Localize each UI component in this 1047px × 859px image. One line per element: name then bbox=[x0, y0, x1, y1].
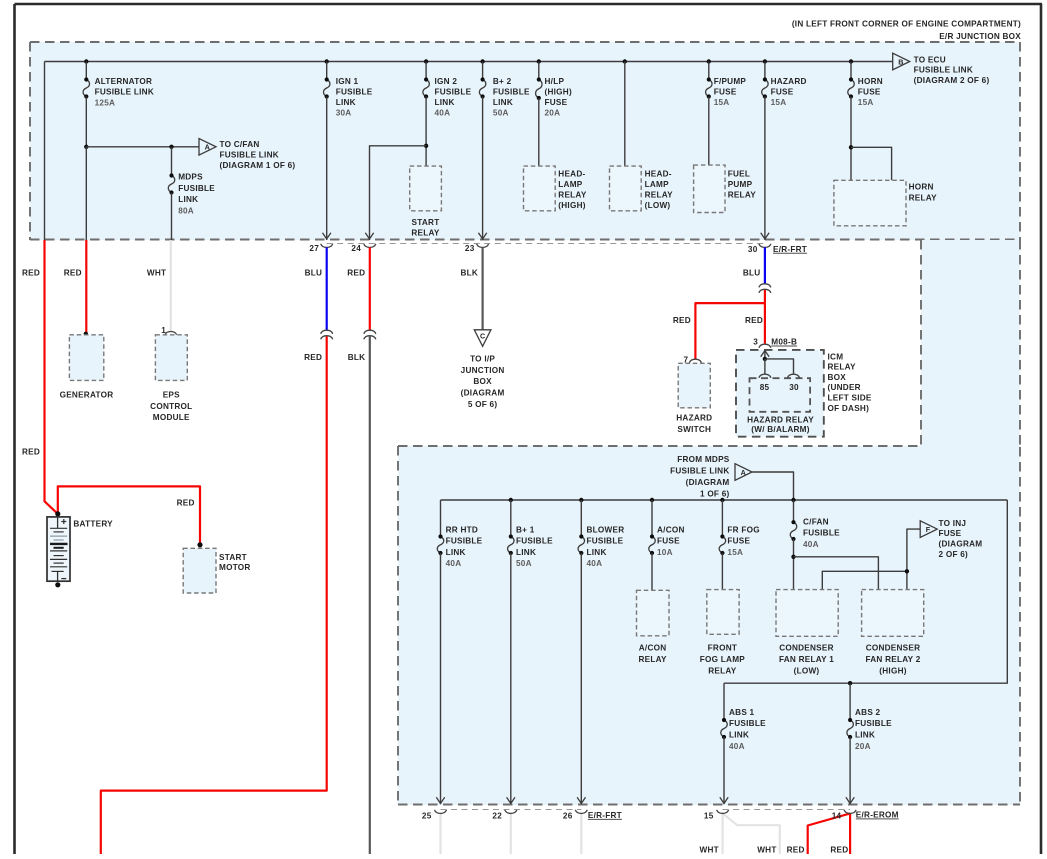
fusible link ABS 1 40A bbox=[720, 683, 766, 804]
wire WHT pin26 bbox=[580, 813, 582, 854]
connector A to C/FAN fusible link bbox=[199, 139, 295, 170]
svg-text:40A: 40A bbox=[446, 559, 462, 568]
wire from triangle A bbox=[752, 472, 794, 500]
svg-text:HEAD-: HEAD- bbox=[645, 169, 672, 178]
svg-text:FUSE: FUSE bbox=[657, 537, 680, 546]
relay box CONDENSER FAN RELAY 2 (HIGH) bbox=[862, 590, 924, 676]
wire RED generator bbox=[64, 240, 87, 334]
svg-text:FUSIBLE: FUSIBLE bbox=[587, 537, 624, 546]
svg-text:22: 22 bbox=[492, 812, 502, 821]
svg-text:RELAY: RELAY bbox=[728, 191, 757, 200]
svg-text:FUSE: FUSE bbox=[545, 98, 568, 107]
svg-text:15A: 15A bbox=[714, 98, 730, 107]
svg-text:F/PUMP: F/PUMP bbox=[714, 77, 747, 86]
svg-text:(HIGH): (HIGH) bbox=[558, 201, 585, 210]
wire BLU pin30 bbox=[743, 247, 765, 284]
svg-text:5 OF 6): 5 OF 6) bbox=[468, 400, 498, 409]
wire BLU pin27 bbox=[305, 247, 327, 330]
svg-text:RELAY: RELAY bbox=[828, 363, 857, 372]
connector A from MDPS fusible link bbox=[670, 455, 752, 499]
svg-text:BLK: BLK bbox=[461, 269, 479, 278]
svg-text:B+ 2: B+ 2 bbox=[493, 77, 512, 86]
svg-text:LAMP: LAMP bbox=[558, 180, 582, 189]
svg-text:RED: RED bbox=[787, 845, 805, 854]
svg-text:WHT: WHT bbox=[757, 845, 776, 854]
wire RED battery top bbox=[58, 486, 200, 544]
node F/PUMP tap bbox=[707, 59, 711, 63]
svg-text:FROM MDPS: FROM MDPS bbox=[677, 455, 730, 464]
svg-text:20A: 20A bbox=[545, 109, 561, 118]
svg-text:LEFT SIDE: LEFT SIDE bbox=[828, 394, 872, 403]
svg-text:OF DASH): OF DASH) bbox=[828, 404, 870, 413]
svg-text:RED: RED bbox=[347, 269, 365, 278]
node H/LP tap bbox=[537, 59, 541, 63]
svg-text:FUSIBLE LINK: FUSIBLE LINK bbox=[220, 150, 279, 159]
node ICM split bbox=[763, 357, 767, 361]
fusible link IGN 2 40A bbox=[423, 62, 472, 167]
svg-text:MOTOR: MOTOR bbox=[219, 563, 251, 572]
inline connector 30 bbox=[759, 284, 771, 293]
svg-text:BOX: BOX bbox=[828, 373, 847, 382]
svg-text:FUEL: FUEL bbox=[728, 169, 750, 178]
svg-text:RED: RED bbox=[830, 845, 848, 854]
wire WHT pin25 bbox=[439, 813, 441, 854]
svg-text:(HIGH): (HIGH) bbox=[545, 87, 572, 96]
svg-text:15A: 15A bbox=[858, 98, 874, 107]
svg-text:LINK: LINK bbox=[729, 731, 749, 740]
svg-text:(W/ B/ALARM): (W/ B/ALARM) bbox=[751, 425, 810, 434]
svg-text:MDPS: MDPS bbox=[178, 173, 203, 182]
fusible link IGN 1 30A bbox=[323, 62, 373, 241]
svg-text:26: 26 bbox=[563, 812, 573, 821]
svg-text:FUSIBLE LINK: FUSIBLE LINK bbox=[914, 66, 973, 75]
node HORN tap bbox=[849, 59, 853, 63]
fusible link B+ 1 50A bbox=[507, 500, 553, 804]
svg-text:(DIAGRAM 1 OF 6): (DIAGRAM 1 OF 6) bbox=[220, 161, 296, 170]
svg-text:GENERATOR: GENERATOR bbox=[60, 391, 114, 400]
pin 30 bbox=[748, 244, 807, 254]
connector face E/R-FRT dashed link bbox=[327, 243, 765, 245]
relay box HORN RELAY bbox=[834, 180, 937, 226]
svg-text:FUSIBLE: FUSIBLE bbox=[435, 87, 472, 96]
svg-text:HORN: HORN bbox=[909, 183, 934, 192]
wire to relay pins bbox=[765, 359, 794, 374]
svg-text:M08-B: M08-B bbox=[771, 338, 797, 347]
svg-text:B+ 1: B+ 1 bbox=[516, 526, 535, 535]
relay box START RELAY bbox=[410, 166, 442, 237]
svg-text:(DIAGRAM 2 OF 6): (DIAGRAM 2 OF 6) bbox=[914, 76, 990, 85]
svg-text:RED: RED bbox=[22, 447, 40, 456]
svg-text:START: START bbox=[412, 218, 440, 227]
svg-text:FUSE: FUSE bbox=[939, 529, 962, 538]
svg-text:A/CON: A/CON bbox=[639, 643, 667, 652]
wire RED hazard feed bbox=[673, 290, 765, 359]
pin 22 bbox=[492, 810, 516, 821]
svg-text:SWITCH: SWITCH bbox=[677, 425, 711, 434]
svg-text:FOG LAMP: FOG LAMP bbox=[700, 655, 745, 664]
svg-text:(IN LEFT FRONT CORNER OF ENGIN: (IN LEFT FRONT CORNER OF ENGINE COMPARTM… bbox=[792, 19, 1021, 28]
svg-text:RED: RED bbox=[64, 269, 82, 278]
node A/CON tap bbox=[650, 498, 654, 502]
node inj branch bbox=[905, 569, 909, 573]
svg-text:ABS 1: ABS 1 bbox=[729, 708, 755, 717]
svg-text:(LOW): (LOW) bbox=[645, 201, 671, 210]
component box GENERATOR bbox=[60, 335, 114, 400]
svg-text:1 OF 6): 1 OF 6) bbox=[700, 489, 730, 498]
svg-text:RED: RED bbox=[177, 498, 195, 507]
svg-text:HAZARD: HAZARD bbox=[676, 414, 712, 423]
wire WHT pin22 bbox=[510, 813, 512, 854]
svg-text:RELAY: RELAY bbox=[909, 193, 938, 202]
svg-text:HAZARD RELAY: HAZARD RELAY bbox=[747, 415, 814, 424]
svg-text:E/R-FRT: E/R-FRT bbox=[588, 811, 622, 820]
svg-text:15A: 15A bbox=[771, 98, 787, 107]
svg-text:24: 24 bbox=[351, 244, 361, 253]
svg-text:40A: 40A bbox=[435, 109, 451, 118]
node battery positive bbox=[55, 511, 60, 516]
connector F to INJ fuse bbox=[920, 519, 982, 559]
fusible link BLOWER 40A bbox=[577, 500, 624, 804]
svg-text:(UNDER: (UNDER bbox=[828, 383, 861, 392]
svg-text:(LOW): (LOW) bbox=[794, 666, 820, 675]
svg-text:IGN 1: IGN 1 bbox=[336, 77, 359, 86]
svg-text:LINK: LINK bbox=[178, 195, 198, 204]
svg-text:BLK: BLK bbox=[348, 353, 366, 362]
svg-text:FUSIBLE: FUSIBLE bbox=[803, 529, 840, 538]
component box EPS CONTROL MODULE bbox=[150, 335, 192, 422]
pin 27 bbox=[309, 244, 332, 253]
fusible link ALTERNATOR 125A bbox=[83, 62, 154, 147]
svg-text:E/R JUNCTION BOX: E/R JUNCTION BOX bbox=[939, 32, 1021, 41]
pin 3 M08-B bbox=[753, 338, 797, 348]
svg-text:TO ECU: TO ECU bbox=[914, 55, 946, 64]
svg-text:MODULE: MODULE bbox=[153, 413, 190, 422]
svg-text:FUSIBLE: FUSIBLE bbox=[729, 719, 766, 728]
svg-text:RED: RED bbox=[22, 269, 40, 278]
node start-relay branch bbox=[424, 144, 428, 148]
svg-text:TO I/P: TO I/P bbox=[470, 355, 495, 364]
node IGN2 tap bbox=[424, 59, 428, 63]
svg-text:RED: RED bbox=[745, 316, 763, 325]
svg-text:(HIGH): (HIGH) bbox=[879, 666, 906, 675]
pin 7 hazard switch bbox=[683, 356, 701, 365]
svg-text:BATTERY: BATTERY bbox=[73, 519, 113, 528]
svg-text:FUSIBLE: FUSIBLE bbox=[336, 87, 373, 96]
svg-text:FUSIBLE: FUSIBLE bbox=[855, 719, 892, 728]
inline connector 27 bbox=[321, 330, 333, 339]
connector B to ECU fusible link bbox=[893, 53, 990, 85]
svg-text:START: START bbox=[219, 553, 247, 562]
svg-text:H/LP: H/LP bbox=[545, 77, 565, 86]
relay box HEAD-LAMP RELAY (HIGH) bbox=[524, 166, 587, 211]
E/R junction box right strip bbox=[921, 240, 1020, 447]
svg-text:FR FOG: FR FOG bbox=[727, 526, 759, 535]
pin 24 bbox=[351, 244, 375, 253]
svg-text:30A: 30A bbox=[336, 109, 352, 118]
pin 14 bbox=[832, 810, 899, 821]
node condenser split bbox=[791, 555, 795, 559]
pin 26 bbox=[563, 810, 622, 821]
svg-text:(DIAGRAM: (DIAGRAM bbox=[686, 478, 730, 487]
svg-text:ICM: ICM bbox=[828, 352, 844, 361]
connector C to I/P junction box bbox=[461, 330, 505, 409]
svg-text:CONTROL: CONTROL bbox=[150, 402, 192, 411]
svg-text:PUMP: PUMP bbox=[728, 180, 753, 189]
svg-text:LINK: LINK bbox=[336, 98, 356, 107]
node headlamp-low tap bbox=[623, 59, 627, 63]
svg-text:FUSIBLE: FUSIBLE bbox=[516, 537, 553, 546]
wire headlamp low drop bbox=[624, 62, 626, 167]
connector face E/R-EROM dashed link bbox=[723, 809, 851, 811]
svg-text:30: 30 bbox=[789, 383, 799, 392]
wire RED long run bbox=[101, 336, 327, 854]
relay box CONDENSER FAN RELAY 1 (LOW) bbox=[776, 590, 838, 676]
svg-text:10A: 10A bbox=[657, 548, 673, 557]
svg-text:50A: 50A bbox=[516, 559, 532, 568]
pin 30 relay bbox=[788, 374, 800, 392]
connector face E/R-FRT bottom dashed link bbox=[441, 809, 582, 811]
node IGN1 tap bbox=[325, 59, 329, 63]
wire lower bus bbox=[441, 500, 1008, 537]
pin 23 bbox=[465, 244, 489, 253]
svg-text:LINK: LINK bbox=[855, 731, 875, 740]
fuse HORN 15A bbox=[848, 62, 883, 181]
inline connector 24 bbox=[364, 330, 376, 339]
component box START MOTOR bbox=[183, 548, 250, 593]
svg-text:B: B bbox=[898, 57, 903, 66]
svg-text:RELAY: RELAY bbox=[708, 666, 737, 675]
wire horn relay branch bbox=[851, 147, 892, 180]
wire RED battery feed bbox=[22, 240, 58, 514]
node A1 bbox=[84, 145, 88, 149]
svg-text:RELAY: RELAY bbox=[645, 191, 674, 200]
fusible link C/FAN 40A bbox=[790, 500, 840, 590]
component box HAZARD SWITCH bbox=[676, 363, 712, 434]
svg-text:14: 14 bbox=[832, 812, 842, 821]
svg-text:C/FAN: C/FAN bbox=[803, 517, 829, 526]
svg-text:15A: 15A bbox=[727, 548, 743, 557]
fusible link MDPS 80A bbox=[168, 147, 215, 240]
node alternator tap bbox=[84, 59, 88, 63]
svg-text:CONDENSER: CONDENSER bbox=[779, 643, 834, 652]
svg-text:HORN: HORN bbox=[858, 77, 883, 86]
svg-text:FAN RELAY 2: FAN RELAY 2 bbox=[865, 655, 920, 664]
svg-text:FUSIBLE: FUSIBLE bbox=[493, 87, 530, 96]
svg-text:FUSIBLE LINK: FUSIBLE LINK bbox=[95, 88, 154, 97]
svg-text:TO C/FAN: TO C/FAN bbox=[220, 140, 260, 149]
svg-text:JUNCTION: JUNCTION bbox=[461, 366, 505, 375]
node generator bbox=[84, 332, 88, 336]
svg-text:40A: 40A bbox=[729, 742, 745, 751]
fuse H/LP HIGH 20A bbox=[536, 62, 572, 167]
wire alternator drop lower bbox=[85, 147, 87, 240]
node ABS2 tap bbox=[848, 681, 852, 685]
svg-text:3: 3 bbox=[753, 338, 758, 347]
svg-text:RELAY: RELAY bbox=[558, 191, 587, 200]
wire RED pin24 bbox=[347, 247, 370, 330]
svg-text:BLU: BLU bbox=[305, 269, 323, 278]
svg-text:FUSE: FUSE bbox=[771, 87, 794, 96]
svg-text:80A: 80A bbox=[178, 207, 194, 216]
relay box FUEL PUMP RELAY bbox=[694, 165, 757, 212]
svg-text:FRONT: FRONT bbox=[708, 643, 737, 652]
svg-text:HAZARD: HAZARD bbox=[771, 77, 807, 86]
svg-text:CONDENSER: CONDENSER bbox=[866, 643, 921, 652]
svg-text:(DIAGRAM: (DIAGRAM bbox=[461, 389, 505, 398]
node B+2 tap bbox=[480, 59, 484, 63]
relay box HEAD-LAMP RELAY (LOW) bbox=[610, 166, 674, 211]
svg-text:2 OF 6): 2 OF 6) bbox=[939, 550, 969, 559]
wire BLK pin23 bbox=[461, 247, 483, 329]
pin 15 bbox=[704, 810, 729, 821]
svg-text:125A: 125A bbox=[95, 98, 116, 107]
wire to C/FAN triangle bbox=[86, 146, 199, 148]
fusible link RR HTD 40A bbox=[436, 526, 482, 805]
svg-text:F: F bbox=[926, 525, 931, 534]
node MDPS tap bbox=[169, 145, 173, 149]
svg-text:RR HTD: RR HTD bbox=[446, 526, 478, 535]
svg-text:15: 15 bbox=[704, 812, 714, 821]
svg-text:ALTERNATOR: ALTERNATOR bbox=[95, 77, 153, 86]
svg-text:20A: 20A bbox=[855, 742, 871, 751]
svg-text:85: 85 bbox=[760, 383, 770, 392]
wire WHT pin15 pair bbox=[700, 813, 780, 854]
fuse F/PUMP 15A bbox=[706, 62, 747, 166]
node start motor bbox=[197, 542, 202, 547]
svg-text:WHT: WHT bbox=[700, 845, 719, 854]
svg-text:LAMP: LAMP bbox=[645, 180, 669, 189]
svg-text:A: A bbox=[741, 468, 746, 477]
component box ICM RELAY BOX bbox=[736, 350, 872, 437]
node B+1 tap bbox=[509, 498, 513, 502]
node horn branch bbox=[849, 145, 853, 149]
fuse HAZARD 15A bbox=[761, 62, 807, 241]
svg-text:FUSE: FUSE bbox=[727, 537, 750, 546]
node FR FOG tap bbox=[720, 498, 724, 502]
svg-text:FUSIBLE: FUSIBLE bbox=[446, 537, 483, 546]
E/R junction box top section bbox=[30, 42, 1020, 240]
fusible link ABS 2 20A bbox=[846, 683, 892, 804]
svg-text:ABS 2: ABS 2 bbox=[855, 708, 881, 717]
svg-text:RED: RED bbox=[304, 353, 322, 362]
svg-text:(DIAGRAM: (DIAGRAM bbox=[939, 540, 983, 549]
wire bus right leg bbox=[724, 500, 1007, 683]
svg-text:E/R-FRT: E/R-FRT bbox=[773, 245, 807, 254]
svg-text:LINK: LINK bbox=[446, 548, 466, 557]
svg-text:FUSE: FUSE bbox=[858, 87, 881, 96]
svg-text:40A: 40A bbox=[803, 540, 819, 549]
svg-text:LINK: LINK bbox=[516, 548, 536, 557]
fuse FR FOG 15A bbox=[719, 500, 760, 590]
wire branch to pin 24 bbox=[365, 146, 426, 240]
node HAZARD tap bbox=[763, 59, 767, 63]
svg-text:IGN 2: IGN 2 bbox=[435, 77, 458, 86]
relay box HAZARD RELAY (W/ B/ALARM) bbox=[747, 378, 814, 434]
wire ICM entry bbox=[761, 351, 769, 359]
svg-text:27: 27 bbox=[309, 244, 319, 253]
pin 25 bbox=[422, 810, 447, 821]
pin 85 bbox=[759, 374, 771, 392]
wire RED pin14 pair bbox=[787, 813, 851, 854]
svg-text:FAN RELAY 1: FAN RELAY 1 bbox=[779, 655, 834, 664]
node BLOWER tap bbox=[579, 498, 583, 502]
svg-text:FUSIBLE LINK: FUSIBLE LINK bbox=[670, 466, 729, 475]
header caption bbox=[792, 19, 1021, 40]
svg-text:EPS: EPS bbox=[163, 391, 180, 400]
svg-text:BOX: BOX bbox=[473, 377, 492, 386]
svg-text:WHT: WHT bbox=[147, 269, 166, 278]
svg-text:LINK: LINK bbox=[587, 548, 607, 557]
svg-text:40A: 40A bbox=[587, 559, 603, 568]
svg-text:50A: 50A bbox=[493, 109, 509, 118]
E/R junction box bottom section bbox=[398, 446, 1020, 805]
svg-text:E/R-EROM: E/R-EROM bbox=[856, 811, 899, 820]
svg-text:A: A bbox=[205, 143, 210, 152]
node C/FAN tap bbox=[791, 498, 795, 502]
svg-text:FUSE: FUSE bbox=[714, 87, 737, 96]
relay box A/CON RELAY bbox=[637, 590, 670, 664]
svg-text:TO INJ: TO INJ bbox=[939, 519, 967, 528]
fusible link B+ 2 50A bbox=[478, 62, 530, 241]
svg-text:RELAY: RELAY bbox=[411, 228, 440, 237]
pin 1 EPS bbox=[161, 326, 177, 335]
battery symbol bbox=[47, 517, 113, 588]
svg-text:BLU: BLU bbox=[743, 269, 761, 278]
svg-text:25: 25 bbox=[422, 812, 432, 821]
wire WHT EPS bbox=[147, 240, 171, 332]
svg-text:BLOWER: BLOWER bbox=[587, 526, 625, 535]
svg-text:C: C bbox=[480, 331, 485, 340]
wire main bus bbox=[45, 62, 893, 241]
wire to condenser relay 2 pin 1 bbox=[794, 557, 879, 590]
svg-text:LINK: LINK bbox=[493, 98, 513, 107]
svg-text:A/CON: A/CON bbox=[657, 526, 685, 535]
svg-text:RED: RED bbox=[673, 316, 691, 325]
fuse A/CON 10A bbox=[649, 500, 685, 590]
wire condenser crossover bbox=[822, 529, 920, 590]
svg-text:RELAY: RELAY bbox=[638, 655, 667, 664]
svg-text:30: 30 bbox=[748, 245, 758, 254]
svg-text:FUSIBLE: FUSIBLE bbox=[178, 184, 215, 193]
wire BLK long run bbox=[348, 336, 370, 854]
svg-text:HEAD-: HEAD- bbox=[558, 169, 585, 178]
svg-text:LINK: LINK bbox=[435, 98, 455, 107]
svg-text:1: 1 bbox=[161, 326, 166, 335]
relay box FRONT FOG LAMP RELAY bbox=[700, 590, 745, 676]
svg-text:23: 23 bbox=[465, 244, 475, 253]
